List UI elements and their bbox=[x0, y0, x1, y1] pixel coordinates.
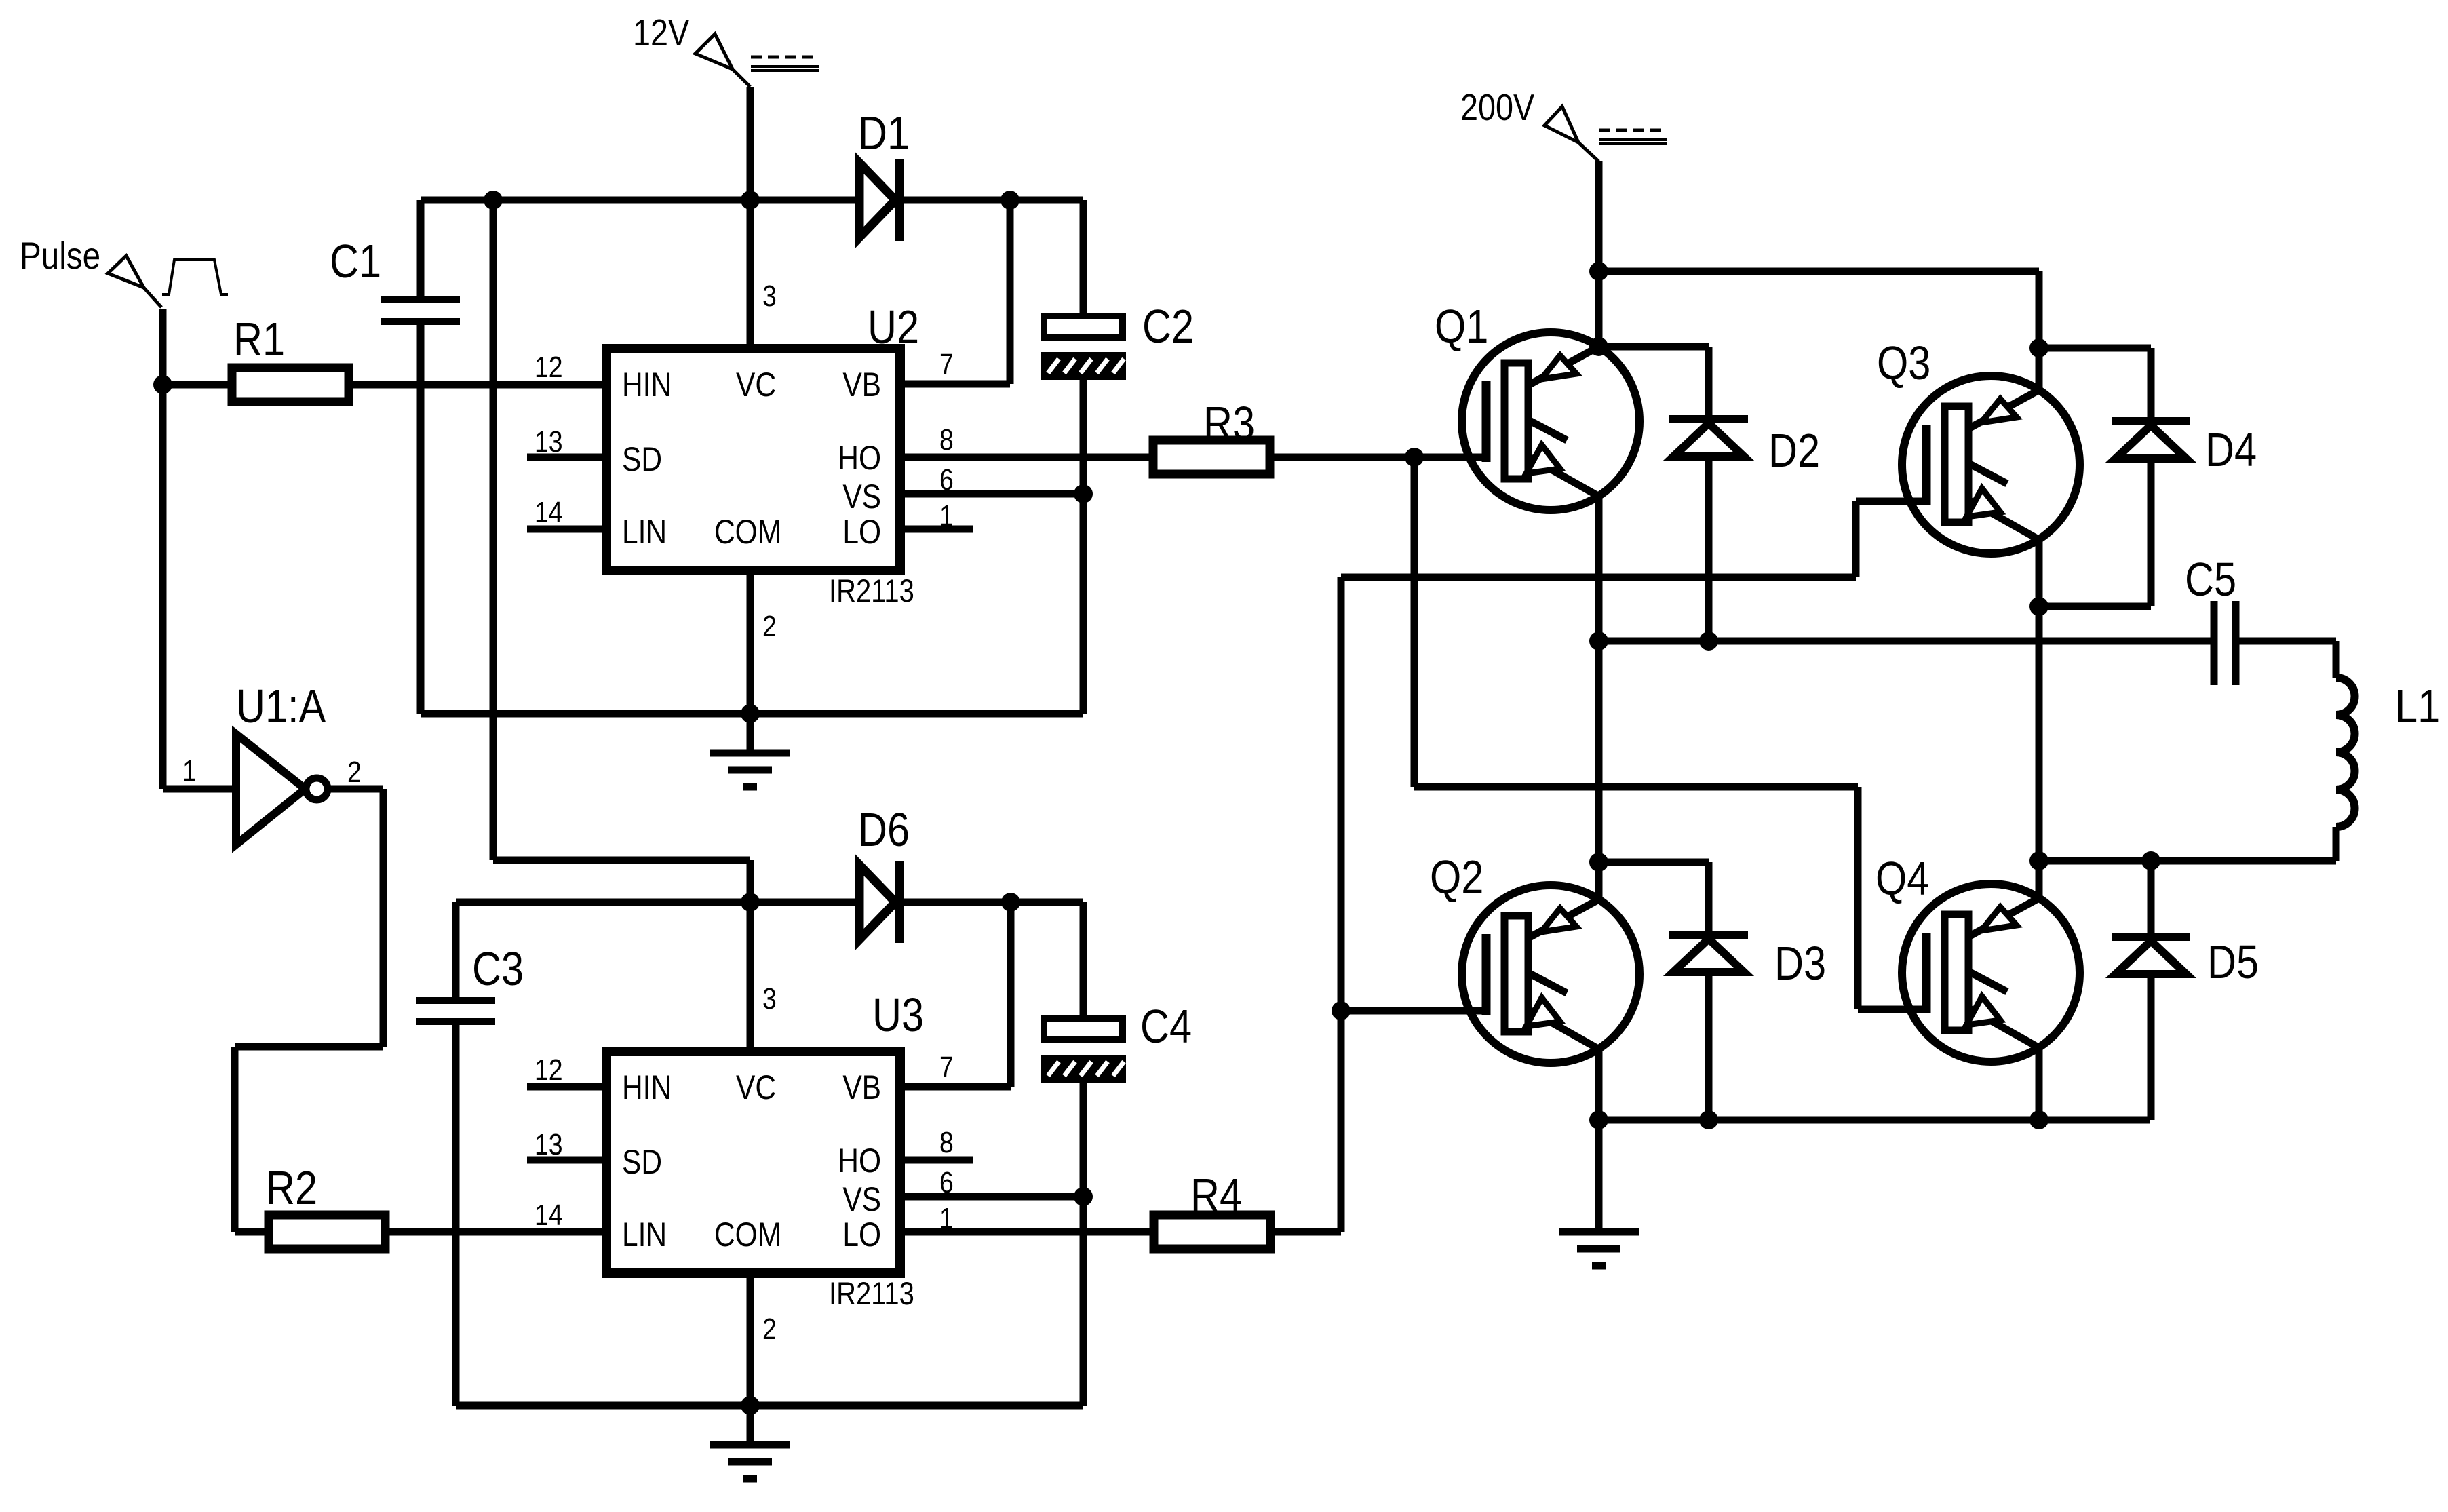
svg-text:12V: 12V bbox=[633, 12, 689, 53]
svg-text:D5: D5 bbox=[2207, 935, 2259, 988]
svg-text:VS: VS bbox=[842, 478, 881, 516]
svg-text:Q1: Q1 bbox=[1435, 299, 1488, 353]
svg-text:VC: VC bbox=[736, 366, 776, 404]
svg-text:8: 8 bbox=[939, 1125, 954, 1159]
svg-text:HIN: HIN bbox=[622, 366, 672, 404]
svg-text:C4: C4 bbox=[1140, 999, 1192, 1053]
svg-text:VS: VS bbox=[842, 1180, 881, 1218]
svg-text:COM: COM bbox=[714, 1216, 781, 1254]
svg-text:2: 2 bbox=[762, 609, 777, 643]
svg-text:14: 14 bbox=[535, 495, 563, 529]
svg-text:3: 3 bbox=[762, 279, 777, 313]
svg-text:R1: R1 bbox=[233, 312, 285, 366]
svg-text:2: 2 bbox=[762, 1312, 777, 1346]
svg-text:U2: U2 bbox=[868, 300, 919, 353]
svg-text:Q3: Q3 bbox=[1877, 336, 1930, 389]
svg-text:R4: R4 bbox=[1190, 1168, 1242, 1222]
svg-text:12: 12 bbox=[535, 1053, 563, 1087]
svg-text:U3: U3 bbox=[872, 988, 924, 1041]
svg-text:8: 8 bbox=[939, 423, 954, 457]
svg-text:LO: LO bbox=[842, 513, 881, 551]
svg-text:D3: D3 bbox=[1774, 936, 1826, 990]
svg-text:12: 12 bbox=[535, 350, 563, 384]
svg-text:R2: R2 bbox=[266, 1161, 317, 1214]
svg-text:C1: C1 bbox=[330, 234, 381, 288]
svg-text:SD: SD bbox=[622, 1143, 662, 1181]
svg-text:LIN: LIN bbox=[622, 513, 667, 551]
svg-text:7: 7 bbox=[939, 1050, 954, 1084]
svg-text:HO: HO bbox=[838, 1142, 881, 1180]
svg-text:D1: D1 bbox=[858, 106, 910, 159]
svg-text:3: 3 bbox=[762, 982, 777, 1015]
svg-text:C5: C5 bbox=[2185, 552, 2236, 606]
svg-text:D4: D4 bbox=[2205, 423, 2257, 476]
svg-text:D6: D6 bbox=[858, 802, 910, 856]
svg-text:C3: C3 bbox=[472, 942, 524, 995]
svg-text:U1:A: U1:A bbox=[236, 679, 326, 733]
svg-text:IR2113: IR2113 bbox=[829, 1277, 914, 1312]
svg-text:C2: C2 bbox=[1142, 299, 1194, 353]
svg-text:1: 1 bbox=[182, 754, 197, 788]
svg-text:HIN: HIN bbox=[622, 1068, 672, 1106]
svg-text:13: 13 bbox=[535, 1127, 563, 1161]
svg-text:IR2113: IR2113 bbox=[829, 574, 914, 609]
svg-text:VB: VB bbox=[842, 366, 881, 404]
svg-text:14: 14 bbox=[535, 1198, 563, 1232]
svg-text:HO: HO bbox=[838, 439, 881, 477]
svg-text:R3: R3 bbox=[1203, 396, 1255, 450]
svg-text:2: 2 bbox=[347, 755, 362, 789]
svg-text:VB: VB bbox=[842, 1068, 881, 1106]
svg-text:200V: 200V bbox=[1460, 86, 1534, 128]
svg-text:7: 7 bbox=[939, 347, 954, 381]
svg-text:13: 13 bbox=[535, 425, 563, 459]
svg-text:Q4: Q4 bbox=[1876, 851, 1929, 905]
svg-text:L1: L1 bbox=[2395, 679, 2440, 733]
svg-text:VC: VC bbox=[736, 1068, 776, 1106]
svg-text:Q2: Q2 bbox=[1430, 850, 1483, 904]
svg-text:COM: COM bbox=[714, 513, 781, 551]
svg-text:LO: LO bbox=[842, 1216, 881, 1254]
svg-text:D2: D2 bbox=[1768, 423, 1820, 477]
svg-text:SD: SD bbox=[622, 440, 662, 478]
svg-text:Pulse: Pulse bbox=[20, 235, 100, 277]
svg-text:LIN: LIN bbox=[622, 1216, 667, 1254]
